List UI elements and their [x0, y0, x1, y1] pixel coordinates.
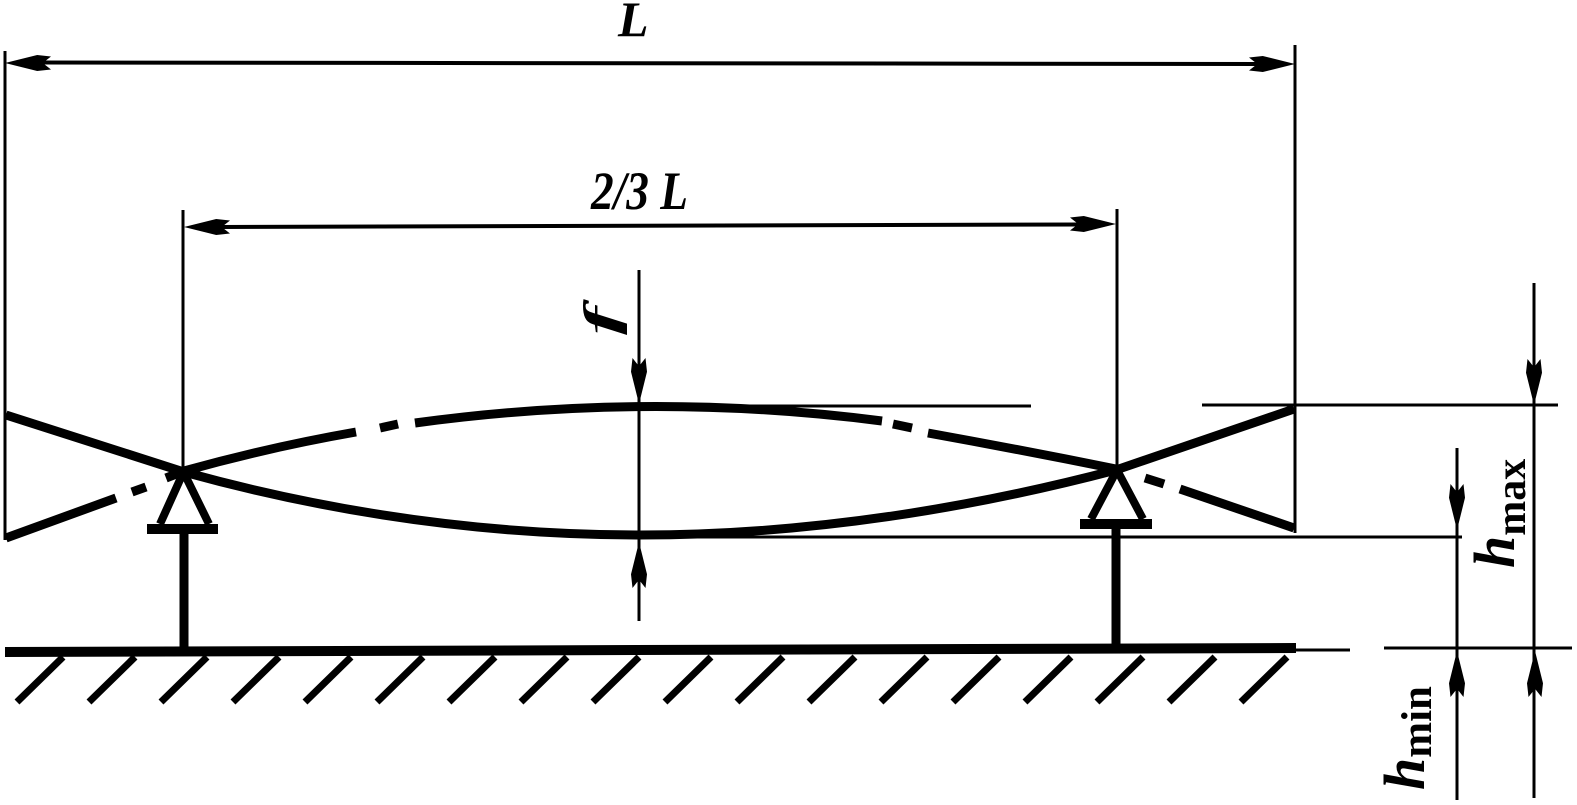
svg-text:hmax: hmax [1462, 459, 1535, 568]
svg-text:2/3 L: 2/3 L [590, 161, 688, 221]
svg-text:L: L [617, 0, 649, 47]
svg-text:hmin: hmin [1372, 686, 1441, 790]
svg-text:f: f [575, 298, 628, 335]
